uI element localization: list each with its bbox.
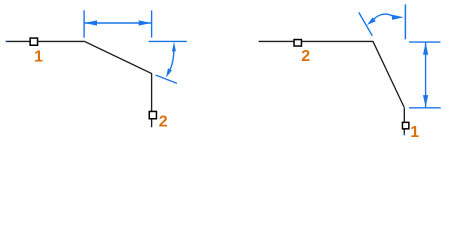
dimension line (left figure) [84,22,151,24]
extension line A (left figure) [83,10,85,37]
grip square 1 (left figure) [30,38,37,45]
grip square 2 (right figure) [294,40,301,47]
pick point dot right end [403,134,405,136]
extension line B (left figure) [151,10,153,37]
arrowhead left (left figure) [84,20,97,25]
grip square 2 (left figure) [149,111,156,118]
vertical extension line (right figure) [404,4,406,39]
grip square 1 (right figure) [402,122,408,129]
rotate arrow head up (left figure) [172,42,176,52]
oblique extension line (right figure) [359,12,373,35]
vertical dimension line (right figure) [425,43,427,108]
polyline right figure [259,41,405,134]
arrowhead down (right figure) [423,95,428,107]
arrowhead up (right figure) [423,43,428,55]
arrowhead right (left figure) [139,20,152,25]
pick point dot left start [5,41,7,43]
bottom extension line (right figure) [409,107,441,109]
pick point dot right mid [404,107,406,109]
rotate arrow head right (right figure) [392,15,404,20]
svg-text:2: 2 [301,48,310,65]
svg-text:1: 1 [34,48,43,65]
rotate arrow shaft (right figure) [374,14,393,19]
rotate arrow head down (left figure) [166,68,172,77]
top extension line (right figure) [409,41,441,43]
svg-text:1: 1 [410,124,419,141]
horizontal extension mark (left figure) [149,40,187,42]
oblique extension line (left figure) [156,75,178,83]
rotate arrow shaft (left figure) [170,50,174,70]
polyline left figure [6,41,152,127]
svg-text:2: 2 [159,114,168,131]
rotate arrow head left (right figure) [367,17,376,25]
